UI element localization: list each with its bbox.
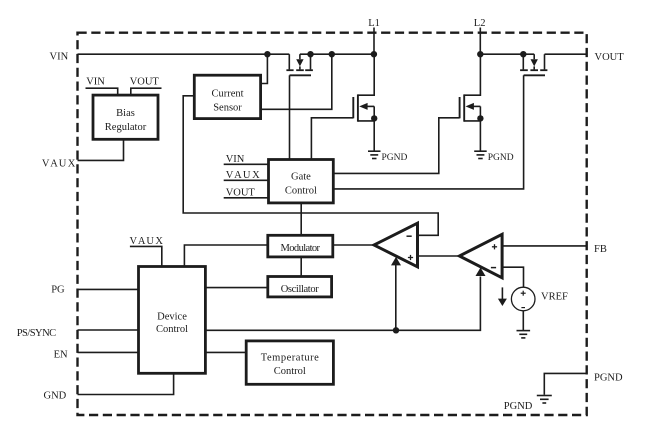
transistor Q2 body arrow [359,103,367,110]
transistor Q2 gate bar [352,97,354,118]
node: Q4 drain top [520,51,526,57]
svg-text:EN: EN [54,350,68,361]
svg-text:VOUT: VOUT [130,77,160,88]
IC boundary dashed border [78,33,587,415]
transistor Q2 source wire [358,120,374,122]
svg-text:Sensor: Sensor [213,103,242,114]
transistor Q3 gate bar [459,97,461,118]
arrow into comparator U7 [476,268,486,277]
wire U7 output to U6 plus [418,255,460,257]
wire Bias Regulator VOUT tap [131,88,162,95]
svg-text:Oscillator: Oscillator [281,284,320,295]
U7 minus glyph [491,267,496,269]
svg-text:Gate: Gate [291,171,311,182]
wire Q3 gate to Gate Control [333,118,459,174]
node: comparator ramp junction [393,327,399,333]
current direction arrow near VREF [501,287,503,299]
svg-text:VOUT: VOUT [226,187,256,198]
U6 minus input wire [417,234,419,236]
wire oscillator to device control [205,287,267,289]
transistor Q3 (low-side NMOS 2): drain wire [464,54,480,95]
node: Q2 source/body junction [371,115,377,121]
svg-text:Regulator: Regulator [105,122,147,133]
wire PS/SYNC line to comparator arrows [205,277,480,331]
wire modulator to device control [184,245,267,267]
svg-text:PGND: PGND [594,372,623,383]
svg-text:FB: FB [594,244,607,255]
transistor Q1 body diode [299,54,301,59]
node B: L2 switching node [477,51,483,57]
wire current sensor output to comparator minus [183,96,438,236]
svg-text:PGND: PGND [504,401,533,412]
node A: L1 switching node [371,51,377,57]
U6 minus glyph [407,235,412,237]
ground PGND 3 [537,396,552,404]
ground AGND under VREF [517,331,531,338]
node: current sensor tap on VIN rail [264,51,270,57]
svg-text:VIN: VIN [86,77,105,88]
wire modulator to comparator output [333,244,374,246]
wire VREF to ground [522,311,524,330]
comparator U6 (PWM comparator) [374,223,418,267]
svg-text:PGND: PGND [382,153,408,163]
wire VIN rail right segment (Q1 source side to L1) [300,53,374,55]
transistor Q1 gate bar [290,74,312,76]
svg-text:Modulator: Modulator [281,243,321,254]
pin VAUX wire from bias regulator [78,139,124,160]
wire FB to U7 plus input [502,245,587,247]
svg-text:V A U X: V A U X [42,158,76,169]
wire Q3 source to PGND [479,106,481,150]
comparator U7 (error amplifier) [459,234,502,277]
current sensor U3 box [194,75,260,118]
svg-text:Control: Control [156,324,188,335]
wire GND to device control [78,373,174,394]
VREF source [511,287,535,311]
wire VIN rail left segment [78,53,290,55]
transistor Q4 body diode [533,54,535,59]
svg-text:Bias: Bias [116,108,135,119]
wire modulator to oscillator [300,257,302,277]
transistor Q3 source wire [464,120,480,122]
wire VOUT rail [545,53,587,55]
ground PGND 1 [368,151,381,158]
wire device control to temperature control [205,351,246,353]
transistor Q3 channel bar [463,94,465,121]
svg-text:V A U X: V A U X [130,236,164,247]
svg-text:Control: Control [285,185,317,196]
wire Q2 gate to Gate Control [311,118,353,160]
wire ramp to comparator U6 [395,265,397,330]
svg-text:Current: Current [211,89,243,100]
transistor Q4 source stub [544,54,546,69]
gate control U4 box [269,160,334,203]
svg-text:VIN: VIN [226,154,245,165]
svg-text:PG: PG [51,285,65,296]
wire Q2 source to PGND [373,106,375,150]
svg-text:VIN: VIN [50,51,69,62]
device control U5 box [139,267,206,374]
wire L2 rail to Q4 [480,53,534,55]
node: Q1 source top [307,51,313,57]
transistor Q4 channel bars [520,69,547,71]
transistor Q4 gate bar [524,74,545,76]
wire current sensor top tap [261,54,268,83]
wire Q1 gate to Gate Control [289,75,291,159]
ground PGND 2 [474,151,487,158]
transistor Q2 channel bar [357,94,359,121]
bias regulator U2 box [93,95,158,139]
arrow into comparator U6 [391,257,401,266]
U6 plus glyph [408,257,413,259]
node: Q3 source/body junction [477,115,483,121]
svg-text:PS/SYNC: PS/SYNC [17,328,57,339]
node: current sensor second tap [329,51,335,57]
wire gate control to modulator [300,203,302,235]
svg-text:Control: Control [274,366,306,377]
svg-text:GND: GND [44,390,67,401]
transistor Q1 source stub [310,54,312,69]
transistor Q3 body arrow [466,103,474,110]
wire L1 pin [373,28,375,55]
transistor Q2 (low-side NMOS 1): drain wire [358,54,374,95]
wire Bias Regulator VIN tap [86,88,118,95]
wire U7 minus to VREF [502,267,523,287]
svg-text:VOUT: VOUT [595,52,625,63]
temperature control box [246,341,333,384]
svg-text:Device: Device [157,312,187,323]
wire L2 pin [479,28,481,55]
transistor Q4 (output PMOS, horizontal): drain stub [522,54,524,69]
svg-text:VREF: VREF [541,291,568,302]
svg-text:Temperature: Temperature [261,353,319,364]
modulator box [268,235,333,257]
U7 plus glyph [492,246,497,248]
transistor Q1 channel bars [286,69,313,71]
svg-text:PGND: PGND [488,153,514,163]
transistor Q1 (input PMOS, horizontal) : drain stub [288,54,290,69]
svg-text:V A U X: V A U X [226,170,260,181]
oscillator box [268,277,332,297]
wire Q4 gate down to Gate Control [333,75,523,189]
wire current sensor second tap [259,54,332,109]
pin PGND (right border) wire [544,373,586,394]
